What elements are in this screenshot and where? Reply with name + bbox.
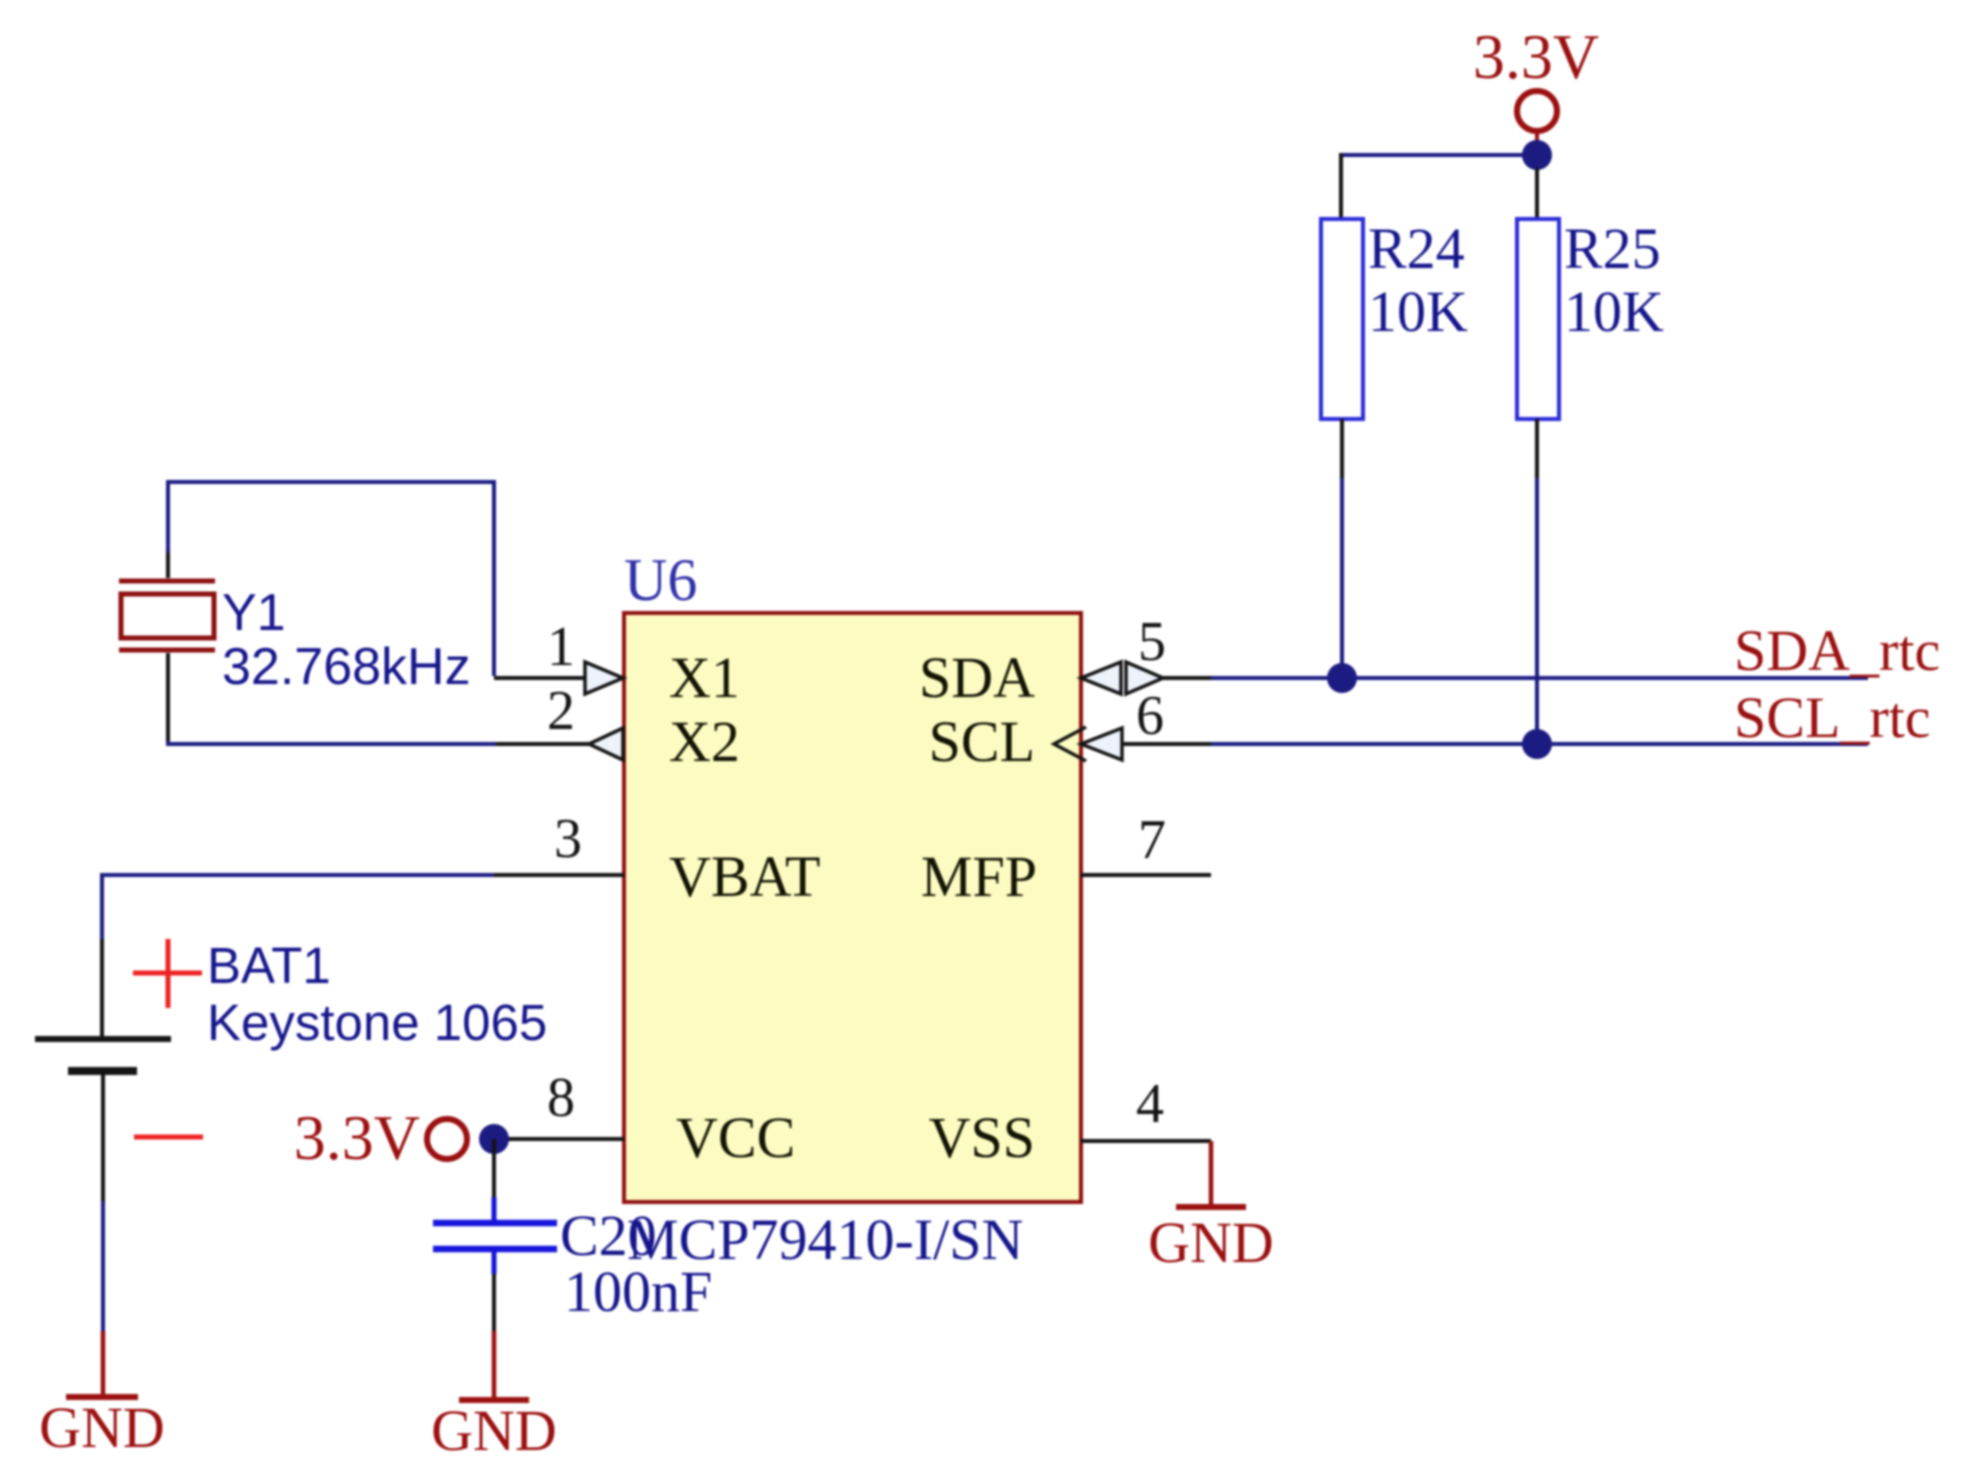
wire battery bottom dark red: [101, 1331, 106, 1397]
svg-text:3.3V: 3.3V: [1473, 21, 1599, 92]
wire cap bottom black: [492, 1274, 496, 1331]
svg-text:X1: X1: [669, 645, 740, 710]
wire R24 to SDA: [1340, 478, 1344, 678]
svg-text:Keystone 1065: Keystone 1065: [207, 994, 547, 1051]
wire cap bottom blue: [492, 1251, 497, 1274]
battery BAT1 long plate: [35, 1036, 171, 1042]
svg-text:7: 7: [1138, 809, 1166, 871]
pin 8 wire: [494, 1137, 624, 1141]
svg-text:3.3V: 3.3V: [294, 1102, 420, 1173]
pin 3 wire black: [494, 873, 624, 877]
svg-text:8: 8: [547, 1067, 575, 1129]
wire R25 to SCL: [1535, 478, 1539, 744]
wire cap top blue: [492, 1197, 497, 1221]
battery BAT1 plus sign: [133, 939, 202, 1008]
resistor R25: [1517, 219, 1559, 419]
wire cap bottom dark red: [492, 1331, 497, 1400]
pin 4 wire: [1081, 1139, 1211, 1143]
wire net SCL: [1211, 742, 1868, 746]
junction dot 3.3V rail: [1522, 140, 1552, 170]
capacitor C20 bottom plate: [433, 1246, 557, 1253]
pin 1 arrow into IC: [585, 662, 623, 694]
pin R25 bottom: [1535, 419, 1539, 478]
pin 5 wire: [1163, 676, 1211, 680]
battery BAT1 minus sign: [134, 1135, 203, 1140]
pin 6 wire: [1122, 742, 1211, 746]
wire VBAT vertical black to battery: [100, 939, 104, 1039]
pin R24 bottom: [1340, 419, 1344, 478]
svg-text:SCL_rtc: SCL_rtc: [1734, 685, 1931, 750]
wire VBAT horizontal: [102, 875, 494, 939]
wire crystal top horizontal: [168, 482, 494, 676]
wire crystal bottom horizontal: [168, 741, 496, 744]
pin 6 arrow: [1081, 728, 1122, 760]
pin 6 chevron inside IC: [1054, 727, 1086, 761]
svg-text:32.768kHz: 32.768kHz: [222, 638, 471, 696]
pin 7 wire: [1081, 873, 1211, 877]
svg-text:R25: R25: [1564, 216, 1661, 281]
svg-text:3: 3: [554, 808, 582, 870]
svg-text:GND: GND: [1148, 1210, 1274, 1275]
ground bar VSS: [1176, 1204, 1246, 1210]
svg-text:5: 5: [1138, 611, 1166, 673]
wire net SDA: [1211, 676, 1868, 680]
IC U6 body: [624, 613, 1081, 1202]
crystal Y1 bottom plate: [119, 648, 215, 653]
junction dot SDA: [1327, 663, 1357, 693]
crystal bottom pin stub: [166, 653, 170, 741]
battery BAT1 short plate: [68, 1067, 137, 1075]
svg-text:10K: 10K: [1368, 279, 1468, 344]
pin 5 arrow left half: [1081, 662, 1121, 694]
svg-text:X2: X2: [669, 709, 740, 774]
pin 1 wire: [494, 676, 588, 680]
junction dot SCL: [1522, 729, 1552, 759]
svg-text:1: 1: [547, 616, 575, 678]
svg-text:2: 2: [547, 680, 575, 742]
svg-text:SDA_rtc: SDA_rtc: [1734, 618, 1940, 683]
svg-text:MFP: MFP: [921, 844, 1037, 909]
ground bar battery: [66, 1394, 138, 1400]
power port 3.3V top circle: [1517, 91, 1557, 131]
svg-text:100nF: 100nF: [564, 1259, 712, 1324]
svg-text:SCL: SCL: [929, 709, 1035, 774]
crystal top pin stub: [166, 552, 170, 578]
svg-text:VCC: VCC: [676, 1105, 795, 1170]
wire drop to R25 top: [1535, 168, 1539, 220]
junction dot VCC: [479, 1124, 509, 1154]
wire stub circle to junction: [1535, 130, 1539, 145]
svg-text:4: 4: [1136, 1073, 1164, 1135]
capacitor C20 top plate: [433, 1220, 557, 1227]
svg-text:GND: GND: [39, 1395, 165, 1460]
ground bar cap: [459, 1397, 529, 1403]
wire battery bottom black: [101, 1071, 105, 1201]
svg-text:10K: 10K: [1564, 279, 1664, 344]
wire drop to R24 top: [1339, 153, 1343, 220]
svg-text:SDA: SDA: [919, 645, 1035, 710]
pin 2 arrow out of IC: [589, 728, 623, 760]
svg-text:U6: U6: [624, 547, 697, 613]
crystal Y1 top plate: [119, 579, 215, 584]
resistor R24: [1321, 219, 1363, 419]
svg-text:BAT1: BAT1: [207, 937, 331, 994]
wire 3.3V rail horizontal: [1341, 153, 1537, 157]
svg-text:GND: GND: [431, 1398, 557, 1463]
svg-text:6: 6: [1136, 685, 1164, 747]
crystal Y1 body: [121, 594, 214, 638]
svg-text:Y1: Y1: [222, 584, 286, 642]
svg-text:R24: R24: [1368, 216, 1465, 281]
pin 2 wire: [496, 742, 592, 746]
pin 5 arrow right half: [1126, 662, 1163, 694]
power port 3.3V at VCC circle: [427, 1119, 467, 1159]
wire VCC to cap black: [492, 1139, 496, 1197]
wire VSS corner dark red: [1209, 1141, 1214, 1207]
wire battery bottom navy: [101, 1201, 105, 1331]
svg-text:VSS: VSS: [929, 1105, 1035, 1170]
svg-text:VBAT: VBAT: [669, 844, 820, 909]
